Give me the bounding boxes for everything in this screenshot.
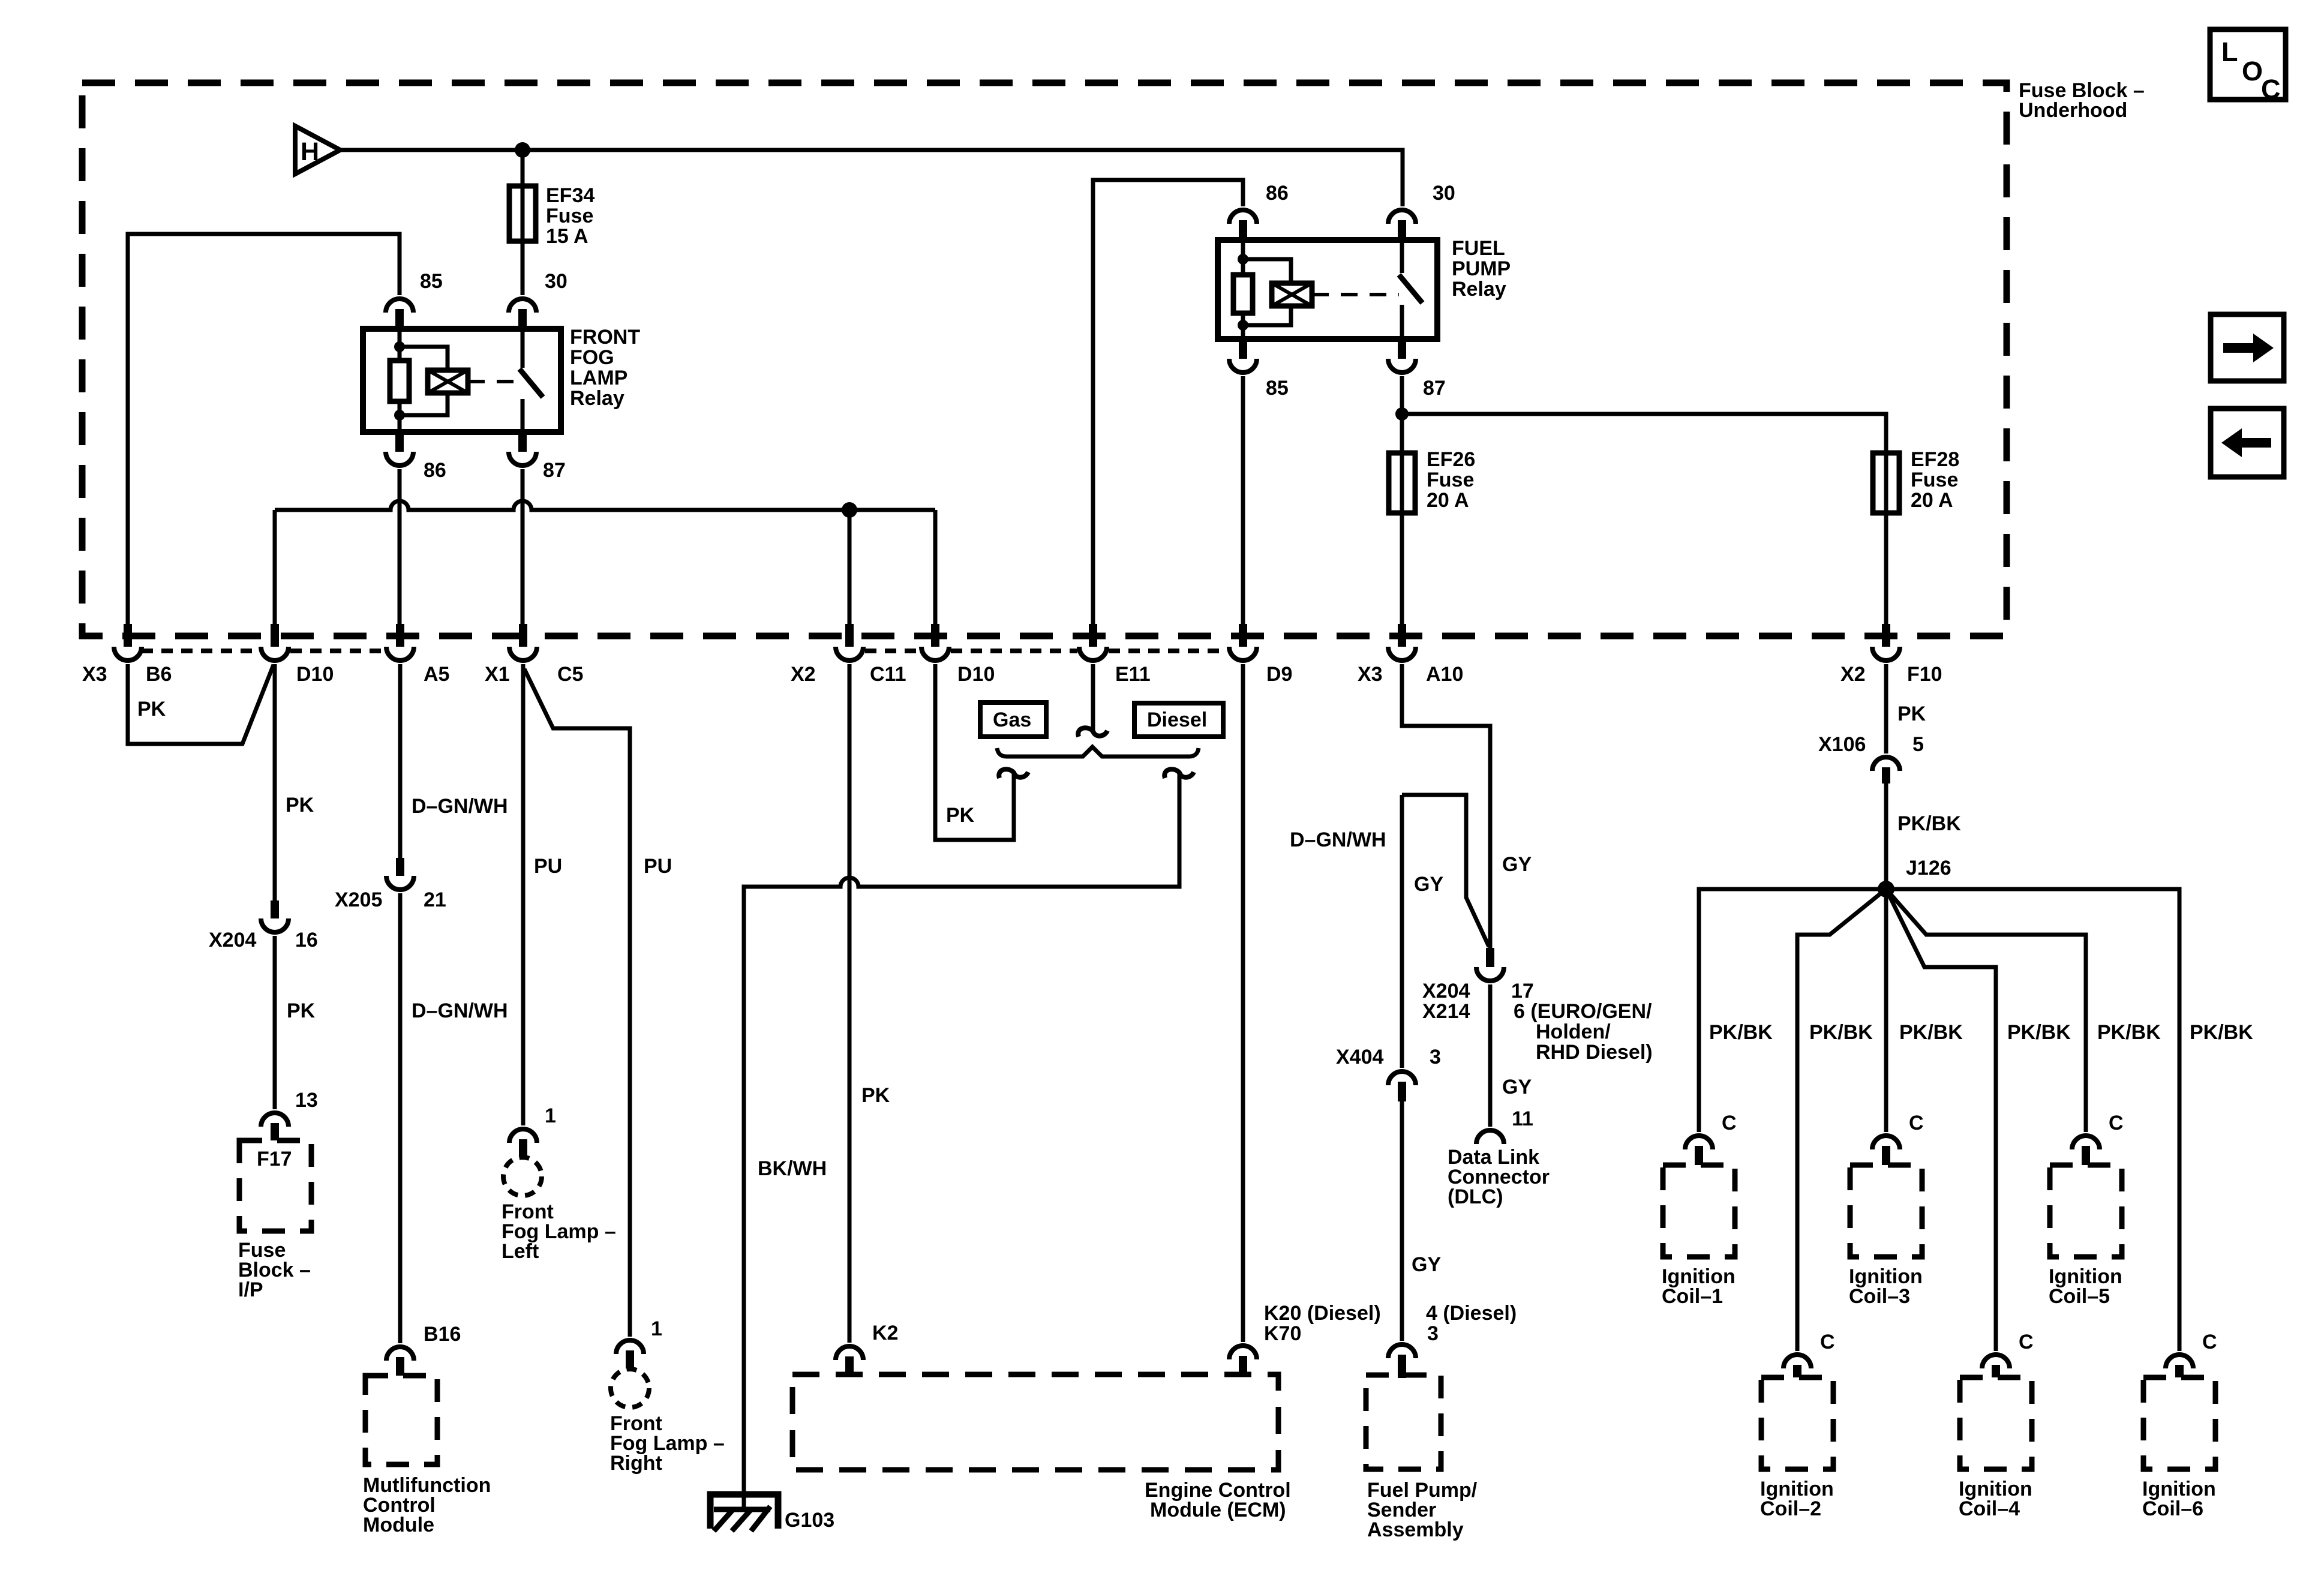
front fog lamp - right (dashed circle)	[611, 1369, 649, 1407]
wire H feed to fuel pump relay pin 30	[340, 150, 1403, 206]
svg-text:FRONT: FRONT	[570, 326, 640, 349]
wire fuel relay pin 87 down through EF26	[1400, 376, 1404, 624]
svg-text:Coil–4: Coil–4	[1959, 1497, 2020, 1520]
wire label PK/BK (coil 5)	[2097, 1021, 2161, 1044]
label FRONT FOG LAMP Relay	[570, 326, 640, 410]
svg-text:X214: X214	[1422, 1000, 1470, 1023]
front fog lamp - left (dashed circle)	[503, 1157, 542, 1196]
pin label 30	[545, 270, 568, 293]
wire J126 to ignition coil 5	[1886, 889, 2086, 1132]
E11 wire end hook (squiggle)	[1078, 728, 1107, 737]
svg-text:Coil–6: Coil–6	[2142, 1497, 2203, 1520]
label G103	[785, 1509, 834, 1532]
fuel pump relay actuator dashed link	[1312, 293, 1399, 296]
wire label PK (F10)	[1897, 703, 1926, 725]
connector pin C of ignition coil 5	[2072, 1136, 2100, 1165]
wire label PK/BK (coil 1)	[1709, 1021, 1773, 1044]
pin labels 4 (Diesel) / 3	[1426, 1302, 1517, 1345]
svg-text:EF26: EF26	[1427, 448, 1475, 471]
wire label GY (left)	[1414, 873, 1443, 896]
front fog relay solenoid	[428, 370, 468, 393]
svg-text:C: C	[1820, 1331, 1835, 1353]
label X2 (middle)	[791, 663, 816, 686]
svg-text:1: 1	[545, 1104, 556, 1127]
wire label PK/BK (coil 6)	[2190, 1021, 2253, 1044]
svg-text:PK/BK: PK/BK	[2007, 1021, 2071, 1044]
label C5	[557, 663, 583, 686]
wire X205-21 to MCM pin B16	[398, 893, 403, 1343]
svg-text:PK/BK: PK/BK	[1897, 812, 1961, 835]
svg-text:20 A: 20 A	[1427, 489, 1469, 512]
fuse block - underhood outline (dashed box)	[82, 83, 2007, 636]
front fog relay switch	[520, 329, 543, 432]
svg-text:17: 17	[1511, 980, 1534, 1002]
front fog relay coil junction bottom	[394, 410, 405, 421]
svg-text:C: C	[2019, 1331, 2034, 1353]
svg-text:B16: B16	[424, 1323, 461, 1346]
wire J126 to ignition coil 1	[1699, 889, 1886, 1132]
label EF26 Fuse 20 A	[1427, 448, 1475, 512]
wire J126 to ignition coil 2	[1797, 889, 1886, 1351]
wire diesel option to ground run	[744, 773, 1179, 1509]
wire label GY (fuel pump)	[1412, 1253, 1441, 1276]
wire label PK (C11)	[861, 1084, 890, 1107]
fuel pump relay coil junction top	[1238, 254, 1248, 265]
connector pin K2 at ECM	[836, 1346, 863, 1376]
label Ignition Coil-6	[2142, 1478, 2216, 1520]
connector pin 86 of front fog lamp relay	[386, 432, 413, 466]
splice J126	[1878, 881, 1894, 897]
svg-text:X204: X204	[209, 929, 256, 951]
connector X2 pin C11 at fuse block bottom edge	[836, 624, 863, 661]
wire label PK/BK (coil 3)	[1899, 1021, 1963, 1044]
svg-text:3: 3	[1430, 1046, 1441, 1068]
svg-text:X1: X1	[485, 663, 510, 686]
svg-text:GY: GY	[1502, 853, 1532, 876]
LOC reference box	[2210, 29, 2286, 104]
svg-text:PK: PK	[861, 1084, 890, 1107]
svg-text:PUMP: PUMP	[1452, 257, 1511, 280]
svg-text:3: 3	[1427, 1322, 1439, 1345]
wire label PK (D10)	[286, 794, 314, 816]
label X204	[209, 929, 256, 951]
connector pin D9 at fuse block bottom edge	[1229, 624, 1257, 661]
svg-text:D–GN/WH: D–GN/WH	[412, 999, 508, 1022]
wire C5 branch to front fog lamp right	[524, 669, 630, 1337]
svg-text:C: C	[2109, 1112, 2124, 1134]
wire label D-GN/WH (D9)	[1290, 828, 1386, 851]
connector X106 pin 5	[1872, 757, 1900, 784]
wire D10 (right) jog to gas option hook	[935, 664, 1014, 840]
svg-text:EF34: EF34	[546, 184, 594, 207]
engine control module box (dashed)	[792, 1374, 1278, 1470]
fuel pump relay coil wire bottom	[1241, 313, 1245, 339]
label X2 (F10)	[1840, 663, 1866, 686]
fuel pump relay switch	[1399, 240, 1422, 339]
svg-text:D–GN/WH: D–GN/WH	[412, 795, 508, 818]
svg-text:PK/BK: PK/BK	[1899, 1021, 1963, 1044]
svg-text:30: 30	[545, 270, 568, 293]
label X3 (left)	[82, 663, 107, 686]
wire label PK/BK (coil 4)	[2007, 1021, 2071, 1044]
ignition coil 1 box (dashed)	[1663, 1165, 1735, 1257]
svg-text:J126: J126	[1906, 857, 1951, 879]
label Fuse Block - I/P	[238, 1239, 311, 1301]
label FUEL PUMP Relay	[1452, 237, 1511, 301]
wire C11 down to ECM pin K2	[848, 664, 852, 1343]
wire A10 branch down to X404	[1400, 795, 1404, 1068]
pin label 1 (fog lamp left)	[545, 1104, 556, 1127]
svg-text:GY: GY	[1414, 873, 1443, 896]
svg-text:G103: G103	[785, 1509, 834, 1532]
svg-text:4 (Diesel): 4 (Diesel)	[1426, 1302, 1517, 1325]
connector pin 3 at fuel pump	[1388, 1344, 1416, 1378]
svg-text:16: 16	[295, 929, 318, 951]
wire label PK (gas option)	[946, 804, 975, 827]
wire connector B6 up and over to relay pin 85	[128, 234, 400, 624]
svg-text:PK: PK	[1897, 703, 1926, 725]
pin label 85	[420, 270, 443, 293]
pin label 86	[424, 459, 446, 482]
relay K? FRONT FOG LAMP Relay box	[363, 329, 561, 432]
svg-text:C: C	[2261, 74, 2281, 104]
wire C5 down to front fog lamp left	[521, 664, 526, 1125]
connector X204 pin 16	[261, 900, 289, 932]
wire F10 down to X106	[1884, 664, 1888, 754]
fuse EF34	[509, 186, 536, 241]
pin label 5 (X106)	[1912, 733, 1924, 756]
svg-text:L: L	[2221, 37, 2238, 67]
connector pin C of ignition coil 1	[1685, 1136, 1713, 1165]
wire label PK/BK (main)	[1897, 812, 1961, 835]
pin label K2	[872, 1322, 898, 1344]
fuse EF28	[1873, 453, 1899, 513]
ignition coil 6 box (dashed)	[2143, 1377, 2215, 1469]
gas option hook (squiggle)	[999, 769, 1028, 778]
label F17	[257, 1148, 292, 1170]
svg-text:Coil–2: Coil–2	[1760, 1497, 1821, 1520]
svg-text:21: 21	[424, 888, 446, 911]
multifunction control module box (dashed)	[365, 1376, 437, 1464]
front fog relay coil wire bottom	[398, 401, 402, 432]
label A5	[424, 663, 449, 686]
connector strip dots (X3 group)	[142, 649, 385, 653]
label Engine Control Module (ECM)	[1145, 1479, 1291, 1521]
fuel pump relay resistor	[1233, 275, 1253, 313]
label X3 (A10)	[1358, 663, 1383, 686]
svg-text:1: 1	[651, 1317, 662, 1340]
svg-text:30: 30	[1433, 182, 1455, 205]
svg-text:PU: PU	[534, 855, 562, 878]
connector pin C of ignition coil 6	[2166, 1355, 2193, 1377]
pin label 87 (fuel pump relay)	[1423, 377, 1446, 400]
junction dot rail to C11	[842, 502, 857, 518]
connector pin D10 (right) at fuse block bottom edge	[921, 624, 949, 661]
svg-text:C5: C5	[557, 663, 583, 686]
svg-text:EF28: EF28	[1911, 448, 1959, 471]
svg-text:20 A: 20 A	[1911, 489, 1953, 512]
label Fuel Pump/Sender Assembly	[1367, 1479, 1478, 1541]
front fog relay solenoid loop	[400, 347, 448, 415]
connector pin 85 of fuel pump relay	[1229, 339, 1257, 373]
svg-text:X3: X3	[1358, 663, 1383, 686]
connector pin 1 of front fog lamp left	[509, 1129, 537, 1157]
wire label GY (right)	[1502, 853, 1532, 876]
connector pin A5 at fuse block bottom edge	[386, 624, 414, 661]
wire rail down to connector C11	[848, 510, 852, 624]
label X1	[485, 663, 510, 686]
wire J126 to ignition coil 3	[1884, 889, 1888, 1132]
connector pin B16 at MCM	[386, 1347, 414, 1376]
svg-text:K2: K2	[872, 1322, 898, 1344]
connector X404 pin 3	[1388, 1071, 1416, 1101]
wire internal rail D10 to D10 (hops over 86/87 wires)	[275, 501, 935, 510]
label X404	[1336, 1046, 1383, 1068]
pin label 30 (fuel pump relay)	[1433, 182, 1455, 205]
svg-text:I/P: I/P	[238, 1278, 263, 1301]
svg-text:C: C	[1909, 1112, 1924, 1134]
label X106	[1818, 733, 1866, 756]
wire label D-GN/WH (to B16)	[412, 999, 508, 1022]
diesel option hook (squiggle)	[1164, 769, 1194, 778]
svg-text:Fuse: Fuse	[546, 205, 593, 227]
label C11	[870, 663, 906, 686]
svg-text:X404: X404	[1336, 1046, 1383, 1068]
arrow box (left)	[2211, 409, 2284, 477]
wire branch through fuse EF28 to F10	[1402, 414, 1886, 624]
labels X204 X214	[1422, 980, 1470, 1023]
pin label 85 (fuel pump relay)	[1266, 377, 1289, 400]
svg-text:O: O	[2242, 56, 2263, 86]
connector pin K70 at ECM	[1229, 1346, 1257, 1374]
connector pin 11 at DLC	[1476, 1130, 1504, 1144]
fuse EF26	[1389, 453, 1415, 513]
fuel pump relay solenoid loop	[1243, 259, 1291, 325]
fuel pump relay coil junction bottom	[1238, 320, 1248, 331]
svg-text:PK/BK: PK/BK	[2190, 1021, 2253, 1044]
wire D10 down to X204	[273, 664, 277, 900]
svg-text:PK: PK	[287, 999, 316, 1022]
svg-text:86: 86	[1266, 182, 1289, 205]
label A10	[1426, 663, 1463, 686]
wire pin 17 down to DLC pin 11	[1488, 984, 1493, 1127]
wire label PK (to F17)	[287, 999, 316, 1022]
label EF34 Fuse 15 A	[546, 184, 594, 248]
svg-text:PK/BK: PK/BK	[1809, 1021, 1873, 1044]
pin label C (coil 3)	[1909, 1112, 1924, 1134]
connector X3 pin B6 at fuse block bottom edge	[114, 624, 142, 661]
svg-text:A5: A5	[424, 663, 449, 686]
svg-text:Underhood: Underhood	[2019, 99, 2127, 122]
svg-text:B6: B6	[146, 663, 172, 686]
label Ignition Coil-5	[2049, 1265, 2122, 1308]
svg-text:D10: D10	[957, 663, 995, 686]
fuel pump relay solenoid	[1272, 283, 1312, 306]
connector pin 13 at fuse block I/P	[261, 1113, 289, 1140]
svg-text:H: H	[301, 137, 319, 166]
connector X3 pin A10 at fuse block bottom edge	[1388, 624, 1416, 661]
svg-text:Gas: Gas	[993, 709, 1031, 731]
connector pin C of ignition coil 2	[1783, 1355, 1811, 1377]
ground G103	[710, 1494, 778, 1531]
svg-text:87: 87	[1423, 377, 1446, 400]
wire X106 down to splice J126	[1884, 784, 1888, 889]
pin label C (coil 4)	[2019, 1331, 2034, 1353]
svg-text:Coil–1: Coil–1	[1662, 1285, 1723, 1308]
label D9	[1266, 663, 1292, 686]
wire J126 to ignition coil 4	[1886, 889, 1996, 1351]
wire X404 branch jog	[1402, 795, 1489, 947]
svg-text:F17: F17	[257, 1148, 292, 1170]
connector pin 87 of front fog lamp relay	[509, 432, 536, 466]
svg-text:X106: X106	[1818, 733, 1866, 756]
svg-text:5: 5	[1912, 733, 1924, 756]
label X205	[335, 888, 382, 911]
svg-text:BK/WH: BK/WH	[758, 1157, 827, 1180]
svg-text:6 (EURO/GEN/: 6 (EURO/GEN/	[1514, 1000, 1652, 1023]
wire relay pin 87 to connector C5	[521, 469, 525, 624]
connector pin E11 at fuse block bottom edge	[1079, 624, 1107, 661]
pin label 21	[424, 888, 446, 911]
svg-text:PK: PK	[286, 794, 314, 816]
front fog relay resistor	[390, 361, 409, 401]
svg-text:Relay: Relay	[570, 387, 624, 410]
svg-text:X204: X204	[1422, 980, 1470, 1002]
wire X404 down to fuel pump	[1400, 1101, 1404, 1341]
label Ignition Coil-4	[1959, 1478, 2032, 1520]
front fog relay coil wire top	[398, 329, 402, 361]
wire connector E11 up to fuel pump relay pin 86	[1093, 180, 1243, 624]
junction dot at EF34 tap	[515, 142, 530, 158]
label Mutlifunction Control Module	[363, 1474, 491, 1536]
label Diesel box	[1134, 703, 1223, 737]
svg-text:K70: K70	[1264, 1322, 1301, 1345]
label F10	[1907, 663, 1942, 686]
svg-text:11: 11	[1512, 1107, 1533, 1130]
wire label GY (DLC)	[1502, 1076, 1532, 1098]
svg-text:13: 13	[295, 1089, 318, 1112]
ignition coil 5 box (dashed)	[2050, 1165, 2122, 1257]
label B6	[146, 663, 172, 686]
svg-text:PU: PU	[644, 855, 672, 878]
label Data Link Connector (DLC)	[1448, 1146, 1550, 1208]
wire label PK/BK (coil 2)	[1809, 1021, 1873, 1044]
svg-text:C: C	[1722, 1112, 1737, 1134]
svg-text:LAMP: LAMP	[570, 367, 627, 389]
svg-text:E11: E11	[1115, 663, 1151, 686]
wire J126 to ignition coil 6	[1886, 889, 2179, 1351]
label E11	[1115, 663, 1151, 686]
wire A5 down to X205	[398, 664, 403, 858]
wire relay pin 86 to connector A5	[398, 469, 402, 624]
fuel pump/sender assembly box (dashed)	[1366, 1375, 1441, 1469]
svg-text:PK: PK	[137, 698, 166, 721]
svg-text:X3: X3	[82, 663, 107, 686]
svg-text:Left: Left	[502, 1240, 539, 1263]
svg-text:Right: Right	[610, 1452, 662, 1475]
label Gas box	[980, 703, 1046, 737]
connector X2 pin F10 at fuse block bottom edge	[1872, 624, 1900, 661]
pin label 1 (fog lamp right)	[651, 1317, 662, 1340]
pin label C (coil 6)	[2202, 1331, 2217, 1353]
ignition coil 2 box (dashed)	[1761, 1377, 1833, 1469]
svg-text:87: 87	[543, 459, 566, 482]
svg-text:X205: X205	[335, 888, 382, 911]
svg-text:PK/BK: PK/BK	[1709, 1021, 1773, 1044]
connector X1 pin C5 at fuse block bottom edge	[509, 624, 537, 661]
svg-text:15 A: 15 A	[546, 225, 588, 248]
pin label C (coil 5)	[2109, 1112, 2124, 1134]
pin label C (coil 2)	[1820, 1331, 1835, 1353]
svg-text:FOG: FOG	[570, 346, 614, 369]
pin label 3 (X404)	[1430, 1046, 1441, 1068]
connector pin 30 of front fog lamp relay	[509, 299, 536, 329]
svg-text:X2: X2	[791, 663, 816, 686]
label D10 (left)	[296, 663, 334, 686]
fuse block I/P box (dashed)	[239, 1140, 311, 1231]
wire B6 jog joining D10	[128, 664, 274, 744]
svg-text:Module: Module	[363, 1514, 434, 1536]
svg-text:RHD Diesel): RHD Diesel)	[1536, 1041, 1653, 1064]
connector X204/X214 pin 17	[1476, 948, 1504, 981]
label Ignition Coil-1	[1662, 1265, 1736, 1308]
ignition coil 4 box (dashed)	[1960, 1377, 2032, 1469]
arrow box (right)	[2211, 314, 2284, 381]
svg-text:85: 85	[420, 270, 443, 293]
connector pin 87 of fuel pump relay	[1388, 339, 1416, 373]
front fog relay coil junction top	[394, 341, 405, 352]
svg-text:85: 85	[1266, 377, 1289, 400]
svg-text:C: C	[2202, 1331, 2217, 1353]
junction dot pin 87 branch	[1395, 407, 1409, 421]
connector pin 86 of fuel pump relay	[1229, 210, 1257, 240]
ignition coil 3 box (dashed)	[1850, 1165, 1922, 1257]
svg-text:A10: A10	[1426, 663, 1463, 686]
pin labels K20 (Diesel) / K70	[1264, 1302, 1381, 1345]
pin label C (coil 1)	[1722, 1112, 1737, 1134]
svg-text:F10: F10	[1907, 663, 1942, 686]
wire E11 down to option brace	[1091, 664, 1095, 731]
pin label B16	[424, 1323, 461, 1346]
svg-text:D10: D10	[296, 663, 334, 686]
label EF28 Fuse 20 A	[1911, 448, 1959, 512]
svg-text:C11: C11	[870, 663, 906, 686]
wire label PU (right)	[644, 855, 672, 878]
connector strip dots (X2 group)	[865, 649, 1227, 653]
connector X205 pin 21	[386, 858, 414, 890]
pin label 13	[295, 1089, 318, 1112]
svg-text:Module (ECM): Module (ECM)	[1150, 1499, 1286, 1521]
svg-text:D9: D9	[1266, 663, 1292, 686]
pin label 6 (EURO/GEN/Holden/RHD Diesel)	[1514, 1000, 1653, 1064]
node H (power feed triangle)	[295, 126, 340, 174]
svg-text:PK: PK	[946, 804, 975, 827]
label Fuse Block - Underhood	[2019, 79, 2145, 122]
svg-text:Holden/: Holden/	[1536, 1020, 1611, 1043]
label Ignition Coil-3	[1849, 1265, 1923, 1308]
option brace	[997, 747, 1199, 757]
svg-text:(DLC): (DLC)	[1448, 1185, 1503, 1208]
label Front Fog Lamp - Right	[610, 1412, 725, 1475]
svg-text:FUEL: FUEL	[1452, 237, 1505, 260]
svg-text:Fuse: Fuse	[1911, 469, 1958, 491]
wire A10 over to X204/X214 pin 17	[1402, 664, 1490, 948]
connector pin C of ignition coil 3	[1872, 1136, 1900, 1165]
wire label PK (B6)	[137, 698, 166, 721]
wire label BK/WH	[758, 1157, 827, 1180]
wire fuel relay pin 85 to connector D9	[1241, 376, 1245, 624]
connector pin 85 of front fog lamp relay	[386, 299, 413, 329]
